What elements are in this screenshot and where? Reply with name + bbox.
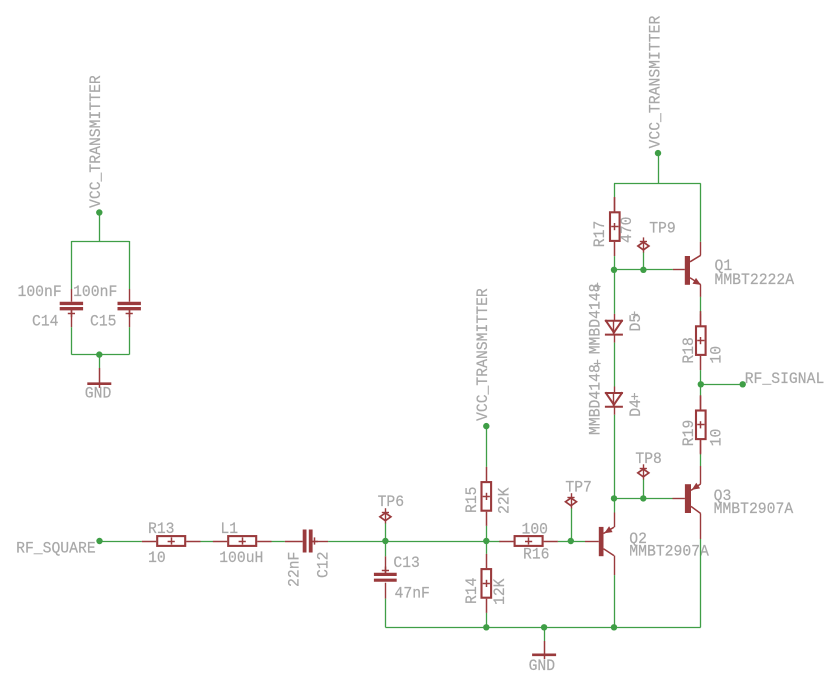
- svg-text:VCC_TRANSMITTER: VCC_TRANSMITTER: [87, 75, 105, 208]
- svg-text:100nF: 100nF: [18, 283, 62, 301]
- svg-text:47nF: 47nF: [395, 585, 430, 603]
- svg-text:RF_SIGNAL: RF_SIGNAL: [745, 370, 825, 388]
- svg-text:R15: R15: [463, 487, 481, 514]
- svg-text:470: 470: [618, 217, 636, 244]
- svg-text:D5: D5: [627, 314, 645, 332]
- svg-text:L1: L1: [220, 520, 238, 538]
- svg-text:VCC_TRANSMITTER: VCC_TRANSMITTER: [647, 15, 665, 148]
- svg-text:R16: R16: [523, 546, 550, 564]
- svg-text:GND: GND: [529, 657, 556, 675]
- svg-text:10: 10: [708, 346, 726, 364]
- svg-text:MMBD4148: MMBD4148: [586, 284, 604, 355]
- svg-text:GND: GND: [85, 385, 112, 403]
- svg-text:100: 100: [522, 521, 549, 539]
- svg-text:R14: R14: [463, 578, 481, 605]
- svg-text:22nF: 22nF: [286, 552, 304, 587]
- svg-text:10: 10: [708, 429, 726, 447]
- svg-text:R13: R13: [148, 520, 175, 538]
- svg-text:C15: C15: [90, 313, 117, 331]
- svg-text:MMBT2907A: MMBT2907A: [714, 500, 794, 518]
- svg-text:MMBT2222A: MMBT2222A: [715, 271, 795, 289]
- svg-text:R18: R18: [680, 337, 698, 364]
- svg-text:12K: 12K: [491, 578, 509, 605]
- svg-text:VCC_TRANSMITTER: VCC_TRANSMITTER: [474, 288, 492, 421]
- svg-text:10: 10: [148, 549, 166, 567]
- svg-text:D4: D4: [627, 399, 645, 417]
- svg-text:TP7: TP7: [565, 479, 592, 497]
- svg-text:TP6: TP6: [378, 493, 405, 511]
- svg-text:MMBT2907A: MMBT2907A: [629, 542, 709, 560]
- svg-text:MMBD4148: MMBD4148: [586, 364, 604, 435]
- svg-text:R19: R19: [680, 420, 698, 447]
- svg-text:100nF: 100nF: [73, 283, 117, 301]
- svg-text:22K: 22K: [496, 487, 514, 514]
- svg-text:C14: C14: [32, 313, 59, 331]
- svg-text:R17: R17: [591, 221, 609, 248]
- svg-text:RF_SQUARE: RF_SQUARE: [16, 539, 96, 557]
- svg-text:TP9: TP9: [649, 220, 676, 238]
- svg-text:C12: C12: [315, 552, 333, 579]
- svg-text:100uH: 100uH: [219, 549, 263, 567]
- svg-text:C13: C13: [393, 554, 420, 572]
- svg-text:TP8: TP8: [635, 450, 662, 468]
